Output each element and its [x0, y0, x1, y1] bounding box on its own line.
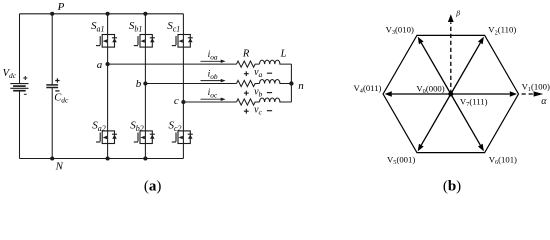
node a dot: [106, 62, 110, 66]
svg-text:L: L: [280, 48, 287, 59]
svg-text:vc: vc: [254, 105, 262, 117]
vector arrow V1: [451, 91, 517, 96]
vector arrow V4: [385, 91, 451, 96]
wire capacitor branch lower: [51, 88, 53, 159]
node n dot: [289, 81, 293, 85]
wire leg a vertical: [107, 14, 109, 159]
junction dot leg a bottom: [106, 156, 110, 160]
svg-text:V2(110): V2(110): [488, 25, 516, 37]
label plus v_c minus: [244, 109, 249, 114]
junction dot leg b top: [143, 12, 147, 16]
wire leg c vertical: [182, 14, 184, 159]
resistor R phase c: [237, 99, 260, 105]
svg-text:Vdc: Vdc: [3, 68, 17, 80]
inductor L phase c: [260, 98, 292, 102]
wire battery branch upper: [19, 14, 21, 84]
node b dot: [143, 81, 147, 85]
svg-text:(b): (b): [443, 179, 461, 195]
beta axis dashed arrow: [448, 14, 454, 94]
battery plus sign: [23, 76, 27, 80]
hexagon outline: [383, 35, 518, 152]
wire battery branch lower: [19, 91, 21, 159]
wire bottom rail (node N): [20, 158, 184, 160]
svg-text:α: α: [541, 96, 547, 107]
vector arrow V2: [451, 37, 484, 94]
svg-text:Sc2: Sc2: [169, 120, 182, 133]
current arrow i_oc: [201, 97, 226, 101]
wire neutral vertical: [290, 64, 292, 102]
transistor S_b1: [134, 35, 155, 48]
alpha axis dashed arrow: [522, 91, 544, 96]
svg-text:Sb1: Sb1: [129, 20, 143, 33]
transistor S_a2: [96, 131, 117, 144]
svg-text:N: N: [55, 160, 64, 172]
wire top rail (node P): [20, 13, 184, 15]
capacitor C_dc: [46, 85, 58, 88]
wire capacitor branch upper: [51, 14, 53, 85]
svg-text:n: n: [298, 80, 304, 92]
svg-text:V7(111): V7(111): [460, 96, 488, 108]
svg-text:V6(101): V6(101): [489, 154, 517, 166]
vector arrow V6: [451, 94, 484, 151]
svg-text:(a): (a): [144, 179, 162, 195]
svg-text:Sa1: Sa1: [91, 20, 105, 33]
wire phase c output: [183, 101, 236, 103]
svg-text:Cdc: Cdc: [54, 93, 69, 105]
svg-text:iob: iob: [208, 70, 218, 81]
svg-text:V3(010): V3(010): [386, 24, 414, 36]
current arrow i_ob: [201, 79, 226, 83]
svg-text:R: R: [242, 48, 250, 59]
svg-text:c: c: [174, 95, 179, 107]
svg-text:Sc1: Sc1: [167, 20, 180, 33]
svg-text:Sa2: Sa2: [92, 120, 106, 133]
svg-text:V5(001): V5(001): [387, 154, 415, 166]
wire phase b output: [145, 83, 236, 85]
junction dot capacitor bottom: [50, 156, 54, 160]
resistor R phase a: [237, 61, 260, 67]
svg-text:vb: vb: [254, 86, 262, 98]
resistor R phase b: [237, 80, 260, 86]
svg-text:ioa: ioa: [208, 50, 218, 61]
transistor S_c1: [172, 35, 193, 48]
capacitor plus sign: [55, 78, 59, 82]
label plus v_b minus: [244, 91, 249, 96]
label plus v_a minus: [244, 71, 249, 76]
battery minus sign: [24, 93, 27, 95]
svg-text:Sb2: Sb2: [130, 120, 144, 133]
inductor L phase a: [260, 60, 292, 64]
center node dot V0/V7: [448, 92, 453, 97]
junction dot leg b bottom: [143, 156, 147, 160]
transistor S_b2: [134, 131, 155, 144]
wire phase a output: [108, 63, 237, 65]
svg-text:b: b: [136, 78, 142, 90]
svg-text:ioc: ioc: [208, 88, 218, 99]
vector arrow V5: [418, 94, 451, 151]
svg-text:V4(011): V4(011): [354, 83, 382, 95]
vector arrow V3: [418, 37, 451, 94]
inductor L phase b: [260, 79, 292, 83]
transistor S_a1: [96, 35, 117, 48]
current arrow i_oa: [201, 60, 226, 64]
node c dot: [181, 100, 185, 104]
svg-text:va: va: [254, 67, 262, 79]
wire leg b vertical: [144, 14, 146, 159]
svg-text:a: a: [97, 59, 103, 71]
svg-text:β: β: [455, 9, 460, 18]
battery V_dc: [10, 84, 28, 91]
svg-text:V0(000): V0(000): [416, 83, 444, 95]
transistor S_c2: [172, 131, 193, 144]
svg-text:V1(100): V1(100): [522, 81, 550, 93]
capacitor minus sign: [55, 90, 59, 92]
junction dot leg a top: [106, 12, 110, 16]
svg-text:P: P: [57, 1, 65, 13]
junction dot capacitor top: [50, 12, 54, 16]
